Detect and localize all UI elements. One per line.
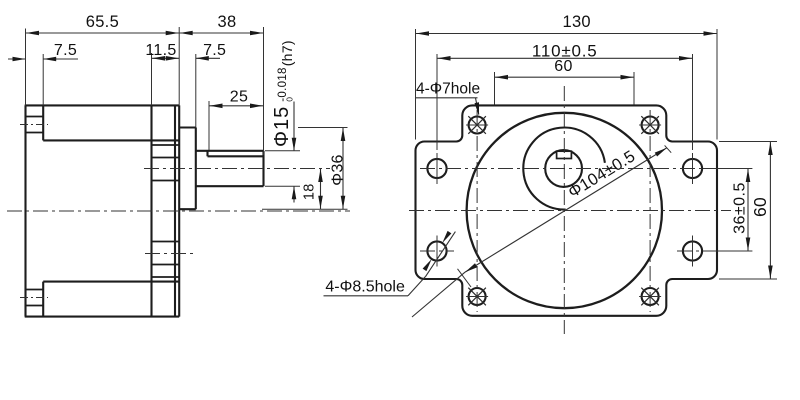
svg-text:4-Φ8.5hole: 4-Φ8.5hole <box>325 279 405 296</box>
dim 60 right extensions <box>719 142 777 280</box>
dim 18 <box>301 169 323 210</box>
dim phi104 line <box>412 148 667 317</box>
upper bearing stack lines <box>152 145 180 181</box>
svg-text:7.5: 7.5 <box>54 42 77 59</box>
svg-text:25: 25 <box>230 88 248 105</box>
dim 130 extensions <box>416 29 718 140</box>
svg-text:7.5: 7.5 <box>203 42 226 59</box>
label 4-phi7hole <box>416 81 480 98</box>
terminal stub top-left centerline <box>20 124 48 126</box>
gearhead joint vertical <box>150 105 152 316</box>
dim 130 <box>416 13 718 36</box>
dim 65.5 <box>26 13 180 35</box>
dim phi104 tick marks <box>458 145 672 287</box>
tab holes vertical centerline right <box>649 110 651 312</box>
mounting hole 7 top-right <box>639 116 661 134</box>
lower gear centerline <box>145 253 193 255</box>
dim 11.5 <box>145 42 179 61</box>
dim 60 top extensions <box>495 72 635 105</box>
svg-text:Φ15: Φ15 <box>271 106 293 147</box>
output shaft centerline <box>144 168 330 170</box>
svg-text:38: 38 <box>218 13 237 31</box>
lower bearing stack lines <box>152 242 180 278</box>
dim 11.5 extension <box>151 53 153 105</box>
output shaft hole circle <box>545 150 582 187</box>
dim 110 <box>437 41 693 60</box>
mounting hole 7 bottom-right <box>639 288 661 306</box>
svg-text:18: 18 <box>301 183 317 200</box>
dim 36 <box>731 169 750 252</box>
front view vertical centerline <box>563 86 565 334</box>
mounting hole 8.5 upper-right <box>683 153 702 184</box>
mounting hole 8.5 lower-left <box>427 236 446 267</box>
dim 7.5 right <box>196 42 226 61</box>
terminal stub top-left <box>26 117 44 133</box>
main motor centerline <box>7 210 350 212</box>
dim 38 <box>179 13 263 35</box>
gearbox body outline (side view) <box>25 105 180 316</box>
svg-text:11.5: 11.5 <box>145 42 176 59</box>
gearhead front face vertical <box>174 105 176 316</box>
dim 7.5 left <box>8 42 78 61</box>
bearing boss circle (broken arc) <box>523 128 605 210</box>
terminal stub bottom-left centerline <box>20 297 48 299</box>
dim phi15 label <box>271 40 295 147</box>
housing upper wall bottom edge <box>43 139 179 141</box>
rear cover inner edge <box>42 105 44 316</box>
dim 25 extension <box>208 101 210 150</box>
svg-text:65.5: 65.5 <box>86 13 119 31</box>
label 4-phi7hole leader <box>475 98 480 116</box>
shaft bottom extension line <box>265 185 300 187</box>
flange plate vertical <box>178 105 180 316</box>
flange plate outline (front view) <box>416 105 718 315</box>
dim 7.5 left extension <box>42 54 44 105</box>
tab holes vertical centerline left <box>476 110 478 312</box>
housing lower wall top edge <box>43 281 179 283</box>
mounting hole 7 top-left <box>466 116 488 134</box>
svg-text:130: 130 <box>562 13 590 31</box>
terminal stub bottom-left <box>26 290 44 306</box>
shaft top extension line <box>265 150 300 152</box>
keyway notch <box>557 151 572 158</box>
label 4-phi8.5hole <box>324 279 409 296</box>
label 4-phi8.5hole leader <box>408 231 455 296</box>
mounting hole 8.5 lower-right <box>683 236 702 267</box>
upper hole row centerline <box>420 168 711 170</box>
mounting hole 8.5 upper-left <box>427 153 446 184</box>
front view main horizontal centerline <box>409 210 731 212</box>
dim 60 top <box>495 58 635 79</box>
dim phi104 label <box>565 147 638 202</box>
svg-text:60: 60 <box>554 58 572 75</box>
mounting hole 7 bottom-left <box>466 288 488 306</box>
dim 110 extensions <box>437 54 693 150</box>
svg-text:60: 60 <box>750 197 770 217</box>
dim 25 <box>209 88 264 108</box>
svg-text:-0.018: -0.018 <box>277 67 289 101</box>
dim 36 extensions <box>703 169 752 252</box>
svg-text:Φ36: Φ36 <box>330 154 347 185</box>
dim phi36 <box>330 128 347 210</box>
output shaft outline <box>196 151 264 186</box>
dim 65.5 extension lines <box>26 27 180 105</box>
gearhead round body circle <box>467 113 662 308</box>
lower hole row centerline <box>420 250 711 252</box>
dim 38 extension line <box>263 27 265 155</box>
svg-text:(h7): (h7) <box>279 40 295 66</box>
dim phi15 dimension line <box>292 102 297 203</box>
svg-text:4-Φ7hole: 4-Φ7hole <box>416 81 480 98</box>
svg-text:36±0.5: 36±0.5 <box>731 182 748 234</box>
dim phi36 extensions <box>262 128 348 210</box>
dim 7.5 right extension <box>195 54 197 128</box>
shaft boss rectangle <box>179 128 196 210</box>
dim 60 right <box>750 142 773 280</box>
